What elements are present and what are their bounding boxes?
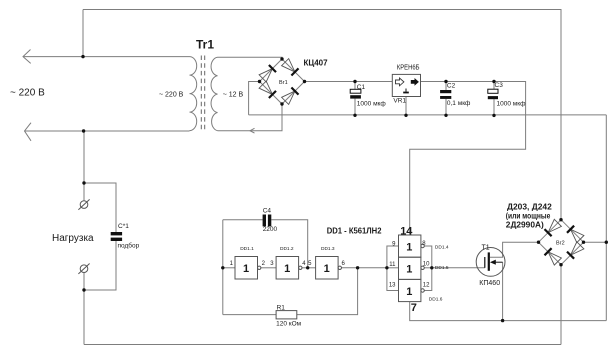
bridge rectifier Br2 diamond (539, 220, 584, 265)
svg-text:подбор: подбор (118, 242, 140, 250)
capacitor C3 (488, 89, 498, 93)
wire Br2 bottom feed (560, 265, 562, 345)
svg-text:1: 1 (406, 242, 412, 254)
diode Br1 VD3 left-bottom (259, 81, 272, 94)
svg-text:C1: C1 (357, 84, 366, 91)
capacitor C2 (440, 90, 451, 93)
node C3 top (492, 80, 495, 83)
wire Br1 left vertex to ground rail (249, 82, 260, 115)
svg-text:C2: C2 (447, 83, 456, 90)
wire C3 stubs (493, 82, 495, 90)
capacitor C1 (350, 89, 361, 93)
node Br1 left vertex (258, 80, 261, 83)
svg-text:Вг1: Вг1 (279, 80, 288, 86)
inverter DD1.4 (399, 235, 421, 257)
node right drop to Br2 (605, 241, 608, 244)
wire C*1 bottom to load bottom node (84, 241, 116, 290)
svg-text:DD1.6: DD1.6 (429, 297, 443, 303)
regulator U1 KREN6B box (392, 74, 420, 96)
svg-text:DD1.5: DD1.5 (435, 265, 449, 271)
svg-text:10: 10 (423, 262, 430, 268)
node Br2 top vertex (559, 218, 562, 221)
arrow on secondary bottom wire (250, 128, 255, 133)
resistor R1 (276, 311, 297, 319)
diode Br2 VD5 top-left (548, 219, 561, 232)
svg-text:Tr1: Tr1 (196, 38, 214, 52)
wire bottom rail (84, 344, 561, 346)
diode Br2 VD6 bottom-left (548, 252, 561, 265)
svg-text:2Д2990А): 2Д2990А) (506, 219, 544, 229)
load connector terminal 2 (80, 265, 88, 273)
inverter DD1.1 (235, 257, 258, 280)
inverter DD1.3 (316, 257, 339, 280)
svg-text:2200: 2200 (263, 226, 278, 233)
wire DD1 pin 7 to ground line (410, 302, 607, 321)
svg-text:14: 14 (400, 225, 413, 237)
wire DD1.4-6 output bus (424, 246, 432, 291)
arrow mains bottom input (25, 123, 32, 141)
node DD1 input bus (385, 266, 388, 269)
transformer Tr1 primary winding (190, 57, 197, 131)
bridge rectifier Br1 diamond (260, 59, 305, 104)
svg-text:1: 1 (243, 263, 249, 275)
wire DD1.4-6 input bus (387, 246, 399, 291)
svg-text:Нагрузка: Нагрузка (52, 233, 94, 244)
node T1 source ground (501, 319, 504, 322)
wire C2 stubs (445, 82, 447, 91)
wire inverter row segments (223, 267, 235, 269)
svg-text:1: 1 (324, 263, 330, 275)
node load top junction (82, 181, 85, 184)
wire T1 source to ground line (502, 262, 504, 320)
inverter DD1.2 (276, 257, 299, 280)
svg-text:DD1.2: DD1.2 (280, 246, 294, 252)
inverter DD1.5 (399, 257, 421, 279)
node Br2 bottom vertex (559, 263, 562, 266)
svg-text:12: 12 (423, 283, 430, 289)
capacitor C*1 (111, 232, 122, 235)
capacitor C4 (263, 215, 266, 227)
node R1 to DD1.3 output (356, 266, 359, 269)
svg-text:КРЕН6Б: КРЕН6Б (397, 63, 420, 72)
svg-text:~ 12 В: ~ 12 В (223, 91, 244, 98)
svg-text:КП460: КП460 (479, 280, 500, 287)
svg-text:С*1: С*1 (118, 223, 129, 230)
node Br2 right vertex (582, 241, 585, 244)
wire load branch to C*1 top (84, 183, 116, 232)
node C4 to DD1.2 output (306, 266, 309, 269)
svg-text:~ 220 В: ~ 220 В (159, 91, 184, 98)
svg-text:~ 220 В: ~ 220 В (10, 88, 45, 99)
svg-text:1: 1 (406, 286, 412, 298)
wire right ground drop (605, 115, 607, 321)
wire Br2 right vertex to right drop (584, 241, 607, 243)
wire +12V rail Br1 to VR1 (305, 81, 393, 83)
svg-text:120 кОм: 120 кОм (276, 321, 302, 328)
diode Br2 VD7 top-right (571, 229, 584, 242)
diode Br2 VD8 bottom-right (571, 242, 584, 255)
svg-text:13: 13 (389, 283, 396, 289)
node C2 top (444, 80, 447, 83)
node load bottom junction (82, 288, 85, 291)
regulator input hollow arrow (396, 78, 404, 86)
transformer Tr1 core (200, 56, 202, 132)
wire C1 stubs (354, 82, 356, 90)
regulator output solid arrow (411, 78, 419, 86)
svg-text:0,1 мкф: 0,1 мкф (447, 100, 471, 107)
svg-text:C3: C3 (495, 82, 504, 89)
svg-text:11: 11 (389, 262, 396, 268)
svg-text:1: 1 (284, 263, 290, 275)
load connector terminal 1 (80, 201, 88, 209)
wire ground rail (249, 114, 607, 116)
svg-text:C4: C4 (263, 208, 272, 215)
node DD1 output bus (430, 266, 433, 269)
svg-text:DD1 - К561ЛН2: DD1 - К561ЛН2 (327, 226, 382, 236)
wire VR1 ground pin (405, 97, 407, 116)
wire +12V rail VR1 to DD1 pin 14 (410, 82, 526, 236)
diode Br1 VD4 bottom-right (282, 91, 295, 104)
svg-text:Вг2: Вг2 (556, 241, 565, 247)
transistor Q1 T1 KP460 (476, 248, 505, 277)
svg-text:DD1.4: DD1.4 (435, 244, 449, 250)
wire secondary top to Br1 top vertex (218, 57, 283, 59)
svg-text:7: 7 (411, 302, 417, 314)
transformer Tr1 secondary winding (211, 57, 217, 130)
wire load bottom vertical to bottom rail (83, 273, 85, 345)
svg-text:1: 1 (406, 264, 412, 276)
wire top rail from mains junction to Br2 top feed (83, 10, 561, 220)
wire mains top input line (23, 56, 190, 58)
node Br2 left vertex (537, 241, 540, 244)
svg-text:R1: R1 (277, 304, 286, 311)
svg-text:1000 мкф: 1000 мкф (357, 101, 387, 108)
svg-text:Т1: Т1 (482, 245, 490, 252)
node C1 bottom (353, 114, 356, 117)
wire left drop from top rail to mains top line (82, 10, 84, 57)
wire Br1 bottom vertex to secondary bottom (218, 104, 283, 131)
node C2 bottom (444, 114, 447, 117)
diode Br1 VD1 left-top (259, 69, 272, 82)
wire R1 feedback bottom (223, 314, 276, 316)
node mains top junction (81, 55, 84, 58)
regulator ground symbol (405, 89, 407, 92)
svg-text:DD1.3: DD1.3 (321, 246, 335, 252)
node oscillator input (221, 266, 224, 269)
svg-text:КЦ407: КЦ407 (304, 58, 329, 67)
node VR1 ground (404, 114, 407, 117)
node C3 bottom (492, 114, 495, 117)
wire load top vertical (83, 131, 85, 201)
wire T1 drain to Br2 left vertex (490, 242, 539, 257)
wire C4 feedback top (223, 219, 263, 221)
diode Br1 VD2 top-right (282, 59, 295, 72)
node Br1 right vertex (303, 80, 306, 83)
node C1 top (353, 80, 356, 83)
node Br1 top vertex (280, 57, 283, 60)
wire gate line to T1 (432, 267, 485, 269)
wire mains bottom input line (25, 130, 190, 132)
node Br1 bottom vertex (280, 102, 283, 105)
arrow mains top input (23, 50, 31, 64)
svg-text:1000 мкф: 1000 мкф (497, 101, 527, 108)
svg-text:VR1: VR1 (393, 98, 406, 105)
inverter DD1.6 (399, 279, 421, 301)
node mains bottom junction (82, 129, 85, 132)
wire oscillator left vertical (222, 220, 224, 315)
svg-text:DD1.1: DD1.1 (240, 246, 254, 252)
